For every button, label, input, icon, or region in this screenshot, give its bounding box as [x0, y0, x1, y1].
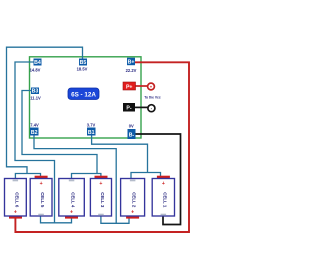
- svg-text:B2: B2: [31, 130, 38, 136]
- svg-text:+: +: [14, 210, 17, 216]
- svg-text:P-: P-: [126, 106, 131, 112]
- svg-text:18.5V: 18.5V: [77, 67, 88, 72]
- wire balance B4 to node cell5-/cell4+: [15, 62, 55, 223]
- pad B5: [79, 59, 87, 67]
- wire balance B3 to node cell4-/cell3+: [22, 91, 97, 175]
- svg-text:CELL 3: CELL 3: [100, 192, 105, 208]
- svg-text:CELL 6: CELL 6: [14, 192, 19, 208]
- pad B-: [128, 129, 136, 139]
- svg-text:CELL 1: CELL 1: [162, 192, 167, 208]
- pad B4: [34, 59, 42, 67]
- wire P- to output terminal: [135, 106, 148, 108]
- terminal J2 output negative: [148, 105, 155, 112]
- battery CELL 4 (positive down): [59, 179, 85, 219]
- svg-text:11.1V: 11.1V: [30, 95, 41, 100]
- svg-text:CELL 4: CELL 4: [71, 192, 76, 208]
- svg-text:B3: B3: [32, 89, 39, 95]
- wire balance B2 to node cell3-/cell2+: [34, 135, 116, 223]
- svg-text:+: +: [70, 210, 73, 216]
- BMS board U1 (6S-12A protection board outline): [30, 57, 142, 138]
- svg-text:+: +: [40, 181, 43, 187]
- svg-text:CELL 2: CELL 2: [132, 192, 137, 208]
- battery CELL 2 (positive down): [121, 179, 145, 219]
- svg-text:22.2V: 22.2V: [126, 68, 137, 73]
- svg-text:+: +: [131, 210, 134, 216]
- pad B+: [127, 58, 135, 66]
- svg-text:6S - 12A: 6S - 12A: [71, 91, 96, 98]
- wire B- to pack negative (cell1 -): [136, 134, 181, 225]
- svg-text:B1: B1: [88, 130, 95, 136]
- wire balance B1 to node cell2-/cell1+: [92, 135, 148, 173]
- battery CELL 1 (positive up): [152, 176, 174, 216]
- pad P+: [123, 82, 136, 90]
- wire series link cell3- to cell2+: [101, 215, 129, 223]
- wire series link cell4- to cell3+: [72, 174, 101, 180]
- svg-text:14.8V: 14.8V: [30, 68, 41, 73]
- svg-text:B-: B-: [129, 133, 135, 139]
- battery CELL 3 (positive up): [90, 176, 111, 216]
- battery CELL 6 (positive down): [5, 179, 27, 219]
- svg-text:B+: B+: [128, 60, 135, 66]
- wire series link cell5- to cell4+: [41, 215, 72, 223]
- pad B2: [30, 128, 39, 137]
- svg-text:B4: B4: [34, 60, 41, 66]
- wire balance B5 to node cell6-/cell5+: [7, 47, 83, 174]
- svg-text:P+: P+: [126, 84, 133, 90]
- wire series link cell6- to cell5+: [15, 174, 40, 180]
- svg-text:+: +: [162, 181, 165, 187]
- pad B1: [87, 128, 96, 137]
- label U1 "6S - 12A" badge: [68, 88, 99, 100]
- terminal J1 output positive: [148, 83, 155, 90]
- svg-text:To the Vcc: To the Vcc: [144, 96, 161, 100]
- svg-text:0V: 0V: [129, 124, 134, 129]
- svg-text:7.4V: 7.4V: [30, 123, 39, 128]
- pad P-: [123, 103, 135, 112]
- wire P+ to output terminal: [135, 85, 148, 87]
- battery CELL 5 (positive up): [30, 176, 52, 216]
- svg-text:CELL 5: CELL 5: [40, 192, 45, 208]
- svg-text:3.7V: 3.7V: [87, 123, 96, 128]
- svg-text:B5: B5: [80, 60, 87, 66]
- wire B+ to pack positive (cell6 +): [15, 62, 189, 232]
- svg-text:+: +: [99, 181, 102, 187]
- wire series link cell2- to cell1+: [131, 173, 161, 180]
- pad B3: [31, 88, 39, 95]
